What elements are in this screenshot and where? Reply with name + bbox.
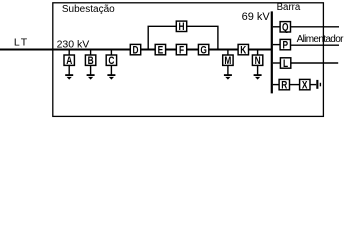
svg-text:L: L xyxy=(283,58,288,70)
svg-text:H: H xyxy=(178,21,184,33)
svg-text:Alimentador: Alimentador xyxy=(297,34,345,45)
svg-text:X: X xyxy=(302,79,308,91)
svg-text:69 kV: 69 kV xyxy=(242,11,271,23)
svg-text:E: E xyxy=(158,44,164,56)
svg-text:M: M xyxy=(224,55,231,67)
svg-text:N: N xyxy=(255,55,261,67)
svg-text:Subestação: Subestação xyxy=(62,4,115,15)
svg-text:G: G xyxy=(200,44,206,56)
svg-text:B: B xyxy=(88,55,94,67)
svg-text:F: F xyxy=(179,44,184,56)
svg-text:C: C xyxy=(108,55,114,67)
svg-text:Barra: Barra xyxy=(277,2,301,13)
svg-text:D: D xyxy=(132,44,138,56)
svg-text:Q: Q xyxy=(282,22,289,34)
svg-text:K: K xyxy=(240,44,246,56)
svg-text:A: A xyxy=(66,55,72,67)
svg-text:P: P xyxy=(283,39,289,51)
svg-text:LT: LT xyxy=(14,37,29,49)
svg-text:230 kV: 230 kV xyxy=(57,39,90,51)
svg-text:R: R xyxy=(281,79,287,91)
